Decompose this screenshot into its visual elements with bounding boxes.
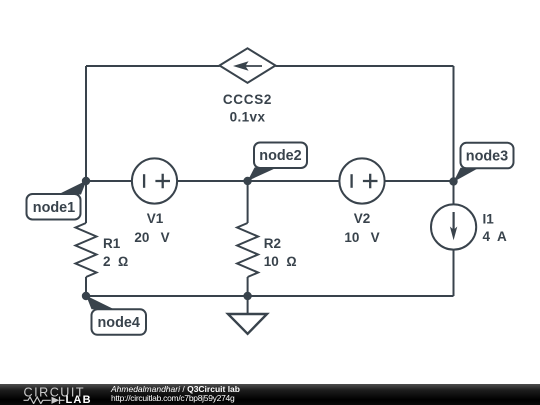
node2 callout tail	[248, 168, 277, 182]
svg-text:node3: node3	[466, 148, 508, 164]
svg-text:V2: V2	[354, 211, 371, 226]
svg-text:2 Ω: 2 Ω	[103, 254, 128, 269]
node dot node3	[449, 177, 457, 185]
svg-text:CCCS2: CCCS2	[223, 92, 272, 107]
voltage source V2 circle	[339, 158, 384, 203]
logo resistor+diode art	[24, 397, 65, 404]
wire node2 to R2 top	[247, 181, 249, 223]
wire top rail right segment	[276, 65, 454, 67]
footer url line	[111, 393, 234, 403]
wire middle rail V1 to node2 to V2	[177, 180, 340, 182]
svg-text:node4: node4	[98, 315, 140, 331]
V1 minus bar	[143, 174, 145, 188]
node dot node4	[82, 292, 90, 300]
node4 label bubble	[92, 309, 147, 335]
ground symbol stem	[247, 296, 249, 314]
footer bar	[0, 384, 540, 405]
node dot ground junction	[243, 292, 251, 300]
I1 arrow shaft	[453, 212, 455, 231]
ground symbol triangle	[228, 314, 267, 334]
svg-text:node2: node2	[259, 148, 301, 164]
svg-text:10 Ω: 10 Ω	[264, 254, 297, 269]
svg-text:R2: R2	[264, 236, 281, 251]
wire node3 to I1 top	[453, 181, 455, 205]
wire R1 bottom to node4	[85, 277, 87, 296]
V1 plus sign	[155, 174, 170, 189]
svg-text:10 V: 10 V	[344, 230, 379, 245]
resistor R1	[76, 223, 97, 277]
svg-text:V1: V1	[147, 211, 164, 226]
wire left vertical (top rail to node1)	[85, 66, 87, 181]
I1 arrowhead	[450, 227, 457, 241]
svg-text:I1: I1	[483, 212, 495, 227]
wire I1 bottom to bottom rail	[453, 250, 455, 297]
node1 label bubble	[27, 194, 81, 220]
svg-text:node1: node1	[33, 200, 75, 216]
svg-text:R1: R1	[103, 236, 121, 251]
node4 callout tail	[86, 296, 114, 310]
CCCS2 arrow	[233, 61, 262, 71]
node2 label bubble	[254, 143, 307, 169]
node dot node2	[243, 177, 251, 185]
node3 label bubble	[461, 143, 514, 169]
footer attribution line	[111, 384, 240, 394]
CircuitLab logo wordmark	[20, 384, 100, 404]
voltage source V1 circle	[132, 158, 177, 203]
svg-text:LAB: LAB	[66, 394, 92, 404]
V2 plus sign	[363, 174, 378, 189]
wire middle rail node1 to V1	[86, 180, 132, 182]
wire bottom rail	[86, 295, 454, 297]
svg-text:20 V: 20 V	[134, 230, 169, 245]
wire node1 to R1 top	[85, 181, 87, 223]
svg-text:0.1vx: 0.1vx	[230, 110, 266, 125]
svg-text:4 A: 4 A	[483, 229, 508, 244]
resistor R2	[237, 223, 258, 277]
V2 minus bar	[350, 174, 352, 188]
node3 callout tail	[454, 168, 480, 182]
CCCS2 diamond body	[220, 48, 276, 83]
node dot node1	[82, 177, 90, 185]
wire right vertical (top rail to node3)	[453, 66, 455, 181]
wire top rail left segment	[86, 65, 220, 67]
wire middle rail V2 to node3	[385, 180, 454, 182]
node1 callout tail	[58, 181, 87, 195]
wire R2 bottom to ground node	[247, 277, 249, 296]
current source I1 circle	[431, 204, 476, 249]
